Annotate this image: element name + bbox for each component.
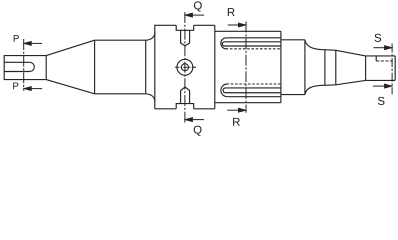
- svg-text:R: R: [227, 7, 235, 19]
- post-spline cylinder: [281, 40, 305, 95]
- svg-text:P: P: [13, 34, 20, 45]
- fillet flare top: [146, 33, 155, 41]
- svg-text:R: R: [232, 117, 240, 129]
- trumpet flare top: [305, 40, 325, 50]
- taper land top: [325, 50, 366, 56]
- section line P: [23, 39, 25, 91]
- bottom spline groove inner: [223, 88, 281, 93]
- bottom counterbore Q: [176, 104, 194, 109]
- arrow P top: [31, 42, 42, 44]
- dashed keyway bottom: [376, 60, 392, 62]
- bottom drilled hole Q: [181, 87, 190, 104]
- arrow S bottom: [373, 85, 385, 87]
- dashed spline root top: [226, 48, 281, 50]
- cross hole outer circle: [177, 59, 193, 75]
- center block outline: [155, 25, 215, 109]
- cylinder-block junction edge: [145, 40, 147, 94]
- top counterbore Q: [176, 25, 194, 30]
- top spline groove inner: [222, 42, 281, 46]
- arrow Q top: [192, 14, 204, 16]
- svg-text:S: S: [374, 33, 382, 45]
- flare end edge: [324, 50, 326, 86]
- svg-text:Q: Q: [193, 0, 202, 12]
- top spline groove outer arc: [221, 38, 226, 49]
- left clevis end rectangle: [4, 56, 46, 80]
- svg-text:Q: Q: [193, 125, 202, 137]
- svg-text:P: P: [12, 81, 19, 92]
- taper-end junction edge: [365, 56, 367, 81]
- end cylinder: [366, 56, 396, 81]
- section line R: [245, 22, 247, 113]
- main cylinder: [95, 40, 146, 94]
- section line S: [391, 44, 393, 95]
- cone-cylinder junction edge: [94, 40, 96, 94]
- taper land bottom: [325, 80, 366, 85]
- cross hole inner circle: [181, 64, 188, 71]
- bottom spline groove outer bottom line: [227, 96, 281, 98]
- section line Q: [184, 12, 186, 123]
- keyway step: [375, 56, 377, 61]
- spline section outline: [215, 31, 281, 102]
- land edge: [335, 50, 337, 85]
- fillet flare bottom: [146, 94, 155, 102]
- arrow R top: [228, 24, 239, 26]
- trumpet flare bottom: [305, 85, 325, 94]
- arrow P bottom: [31, 88, 42, 90]
- top drilled hole Q: [181, 30, 190, 46]
- post-spline junction edge: [304, 40, 306, 95]
- bottom spline groove outer arc: [221, 84, 227, 97]
- arrow Q bottom: [192, 119, 204, 121]
- circle horizontal centerline: [175, 66, 197, 68]
- slot in left end: [4, 62, 34, 71]
- svg-text:S: S: [377, 96, 385, 108]
- dashed spline root bottom: [226, 83, 281, 85]
- arrow S top: [374, 47, 386, 49]
- top spline groove outer top line: [226, 37, 281, 39]
- arrow R bottom: [227, 109, 239, 111]
- cone section: [46, 40, 94, 94]
